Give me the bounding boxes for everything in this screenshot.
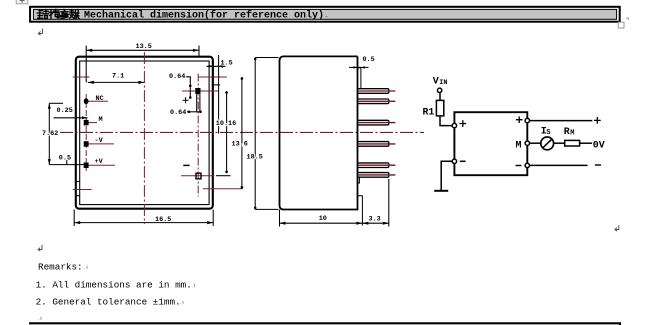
wire node to ground	[441, 161, 452, 190]
red tick top left edge	[73, 76, 90, 78]
svg-text:13.5: 13.5	[136, 43, 152, 51]
svg-text:0.5: 0.5	[59, 155, 71, 163]
pin top-right (filled)	[195, 88, 200, 94]
node left -	[452, 159, 456, 163]
svg-text:0.64: 0.64	[169, 73, 185, 81]
pilcrow right middle	[615, 225, 619, 231]
red pin column line right	[197, 74, 199, 197]
dim 13.5	[86, 46, 199, 83]
small end mark	[39, 317, 42, 321]
wire + output	[530, 120, 593, 122]
dim 0.64 top	[185, 77, 191, 98]
input terminal	[437, 88, 441, 92]
pin s1	[358, 89, 389, 94]
svg-text:M: M	[99, 116, 103, 124]
dim 13.6	[241, 77, 243, 189]
dim 0.5 side	[349, 66, 369, 68]
svg-text:10.16: 10.16	[216, 120, 236, 128]
dim 1.5	[207, 55, 226, 134]
pin bottom-right (open)	[196, 173, 201, 179]
dim 7.1	[88, 81, 145, 84]
svg-text:0.64: 0.64	[170, 109, 186, 117]
svg-text:V: V	[433, 75, 439, 86]
pilcrow below drawing left	[38, 245, 42, 252]
svg-text:7.1: 7.1	[112, 73, 124, 81]
svg-text:M: M	[516, 139, 522, 150]
label + output	[594, 117, 601, 124]
red tick top right edge	[198, 76, 227, 78]
node left +	[452, 123, 456, 127]
wire terminal to R1	[439, 93, 441, 101]
dim 16.5	[74, 210, 213, 227]
label + right inside	[516, 116, 523, 123]
dim 0.5	[66, 160, 68, 165]
red leader pin -V	[87, 143, 114, 145]
svg-text:R1: R1	[423, 107, 435, 118]
bottom table border	[29, 323, 620, 325]
resistor R1	[436, 100, 443, 116]
label - output	[595, 164, 601, 166]
dim 10.16	[226, 91, 228, 173]
dim 7.62	[48, 103, 84, 164]
resistor RM	[565, 140, 580, 146]
wire R1 to node	[440, 116, 452, 126]
red line through pin top-right	[182, 90, 218, 92]
svg-text:18.5: 18.5	[247, 153, 263, 161]
label - left	[460, 160, 466, 162]
pin M	[84, 120, 89, 126]
pilcrow below heading	[38, 29, 42, 36]
side body outline	[280, 56, 358, 209]
side top lip step	[358, 68, 361, 88]
wire meter to RM	[554, 142, 565, 144]
red leader pin NC	[87, 100, 108, 102]
red pin column line left	[85, 94, 87, 171]
red tick bottom right edge	[203, 188, 243, 190]
svg-text:0.25: 0.25	[57, 107, 73, 115]
pin NC	[84, 98, 89, 104]
red line through pin bottom-right	[181, 175, 215, 177]
heading bar frame	[30, 7, 620, 22]
ext line pin to 10.16 bottom	[216, 175, 231, 177]
left edge tab marks	[75, 182, 80, 196]
svg-text:13.6: 13.6	[232, 140, 248, 148]
pin s5	[358, 163, 389, 168]
node right M	[525, 141, 529, 145]
package inner lid	[80, 61, 209, 205]
svg-text:S: S	[546, 129, 550, 137]
heading expand plus box	[16, 0, 28, 4]
svg-text:R: R	[564, 126, 570, 137]
red leader pin +V	[87, 164, 115, 166]
pin s4	[358, 142, 389, 147]
dim 0.25	[54, 116, 88, 119]
red horizontal main centerline	[60, 131, 424, 133]
数	[70, 10, 79, 19]
red tick bottom left edge	[73, 189, 92, 191]
pin s6	[358, 173, 389, 178]
svg-text:IN: IN	[439, 79, 447, 87]
centre cross mark	[183, 97, 189, 103]
结	[37, 10, 48, 19]
corner mark	[626, 18, 629, 20]
ext line pin to 10.16 top	[212, 84, 220, 86]
svg-text:16.5: 16.5	[155, 216, 171, 224]
svg-text:NC: NC	[96, 95, 104, 103]
red leader pin M	[87, 122, 97, 124]
heading end mark	[326, 16, 328, 18]
node right +	[525, 118, 529, 122]
heading resize handle	[618, 22, 624, 28]
wire M to meter	[530, 142, 541, 144]
wire - output	[530, 164, 588, 166]
svg-text:1. All dimensions are in mm.: 1. All dimensions are in mm.	[36, 280, 192, 291]
svg-text:+V: +V	[95, 158, 104, 166]
side bottom dims 10 and 3.3	[280, 179, 389, 227]
pin +V	[84, 163, 89, 169]
wire RM to 0V	[580, 142, 592, 144]
label + left	[459, 120, 466, 127]
svg-text:0V: 0V	[593, 139, 605, 150]
svg-text:10: 10	[319, 215, 327, 223]
minus mark near bottom-right pin	[183, 164, 189, 166]
label - right inside	[516, 165, 522, 167]
current meter IS	[541, 137, 554, 150]
dim 0.64 bottom	[187, 94, 202, 112]
svg-text:Mechanical dimension(for refer: Mechanical dimension(for reference only)	[84, 10, 324, 22]
svg-text:0.5: 0.5	[363, 56, 375, 64]
dim 18.5	[255, 58, 278, 210]
svg-text:Remarks:: Remarks:	[38, 261, 83, 272]
ground	[434, 190, 448, 192]
pin s2	[358, 99, 389, 104]
参	[60, 9, 68, 18]
heading CJK glyphs 结构参数 (hand drawn)	[37, 9, 79, 18]
构	[49, 9, 59, 18]
svg-text:-V: -V	[95, 137, 104, 145]
svg-text:7.62: 7.62	[42, 130, 58, 138]
svg-text:2. General tolerance ±1mm.: 2. General tolerance ±1mm.	[36, 297, 181, 308]
node right -	[525, 163, 529, 167]
side bottom notch	[358, 178, 363, 226]
svg-text:1.5: 1.5	[221, 60, 233, 68]
side pins	[358, 89, 396, 178]
svg-text:M: M	[570, 129, 574, 137]
module box	[454, 112, 527, 175]
red vertical centerline	[143, 52, 145, 224]
pin -V	[84, 141, 89, 147]
package outer case	[76, 57, 213, 209]
svg-text:3.3: 3.3	[369, 215, 381, 223]
pin s3	[358, 120, 389, 125]
